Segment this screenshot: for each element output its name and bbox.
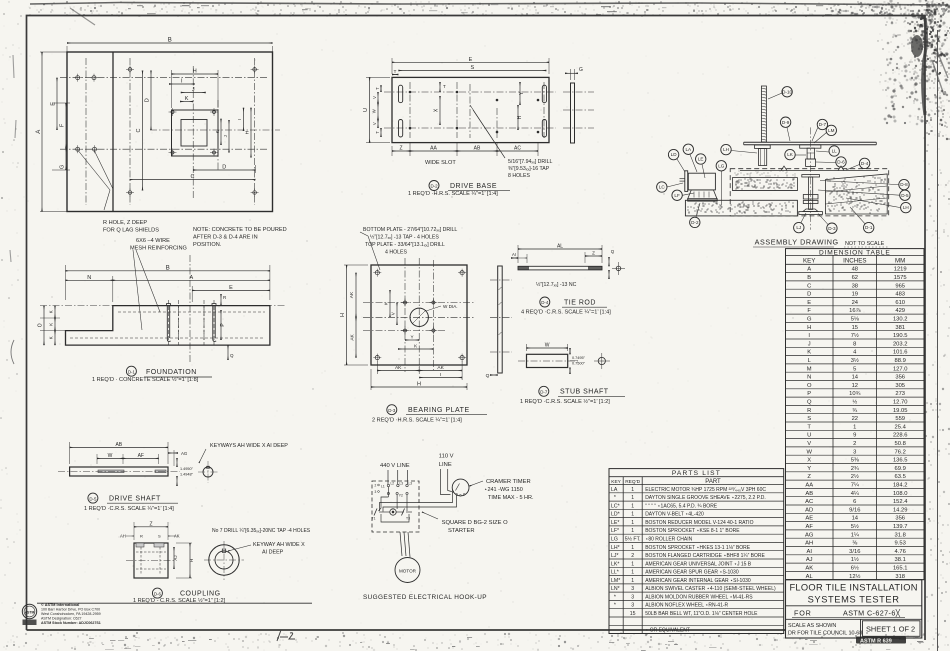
svg-text:*: *	[611, 594, 616, 600]
anchor bolt centerlines	[168, 300, 170, 345]
foundation plan inner edge line	[112, 52, 114, 212]
dimension E section	[192, 289, 270, 291]
svg-text:L1: L1	[381, 485, 385, 489]
svg-text:AL: AL	[557, 244, 563, 250]
svg-text:© ASTM International: © ASTM International	[41, 603, 79, 607]
svg-text:LE: LE	[698, 157, 704, 162]
motor mount wedge	[688, 190, 717, 199]
svg-text:LK*: LK*	[611, 561, 619, 567]
dims Y K interior bottom	[405, 339, 419, 341]
svg-text:1: 1	[631, 487, 634, 493]
wire L2	[397, 470, 399, 484]
wire L3	[407, 470, 409, 484]
svg-text:H: H	[807, 325, 811, 331]
lower shaft column	[809, 177, 813, 209]
svg-text:AK: AK	[395, 365, 402, 371]
svg-text:DRIVE SHAFT: DRIVE SHAFT	[109, 496, 161, 503]
svg-text:1.4948”: 1.4948”	[180, 473, 194, 477]
svg-text:B: B	[168, 38, 172, 44]
svg-text:3: 3	[631, 603, 634, 609]
dimension A section	[113, 279, 270, 281]
svg-text:AK: AK	[349, 291, 355, 298]
svg-text:LG: LG	[718, 163, 725, 168]
dimension Y interior	[519, 82, 521, 105]
stub shaft end view	[598, 357, 605, 364]
svg-text:19: 19	[852, 292, 858, 298]
svg-text:Y: Y	[411, 335, 414, 340]
svg-text:“ “ “ “ ⋆1AC6: “ “ “ “ ⋆1AC65, 5.4 P.D. ¾ BORE	[645, 503, 718, 509]
svg-text:K: K	[807, 350, 811, 356]
svg-text:203.2: 203.2	[893, 341, 908, 347]
top paper edge line	[30, 3, 948, 6]
svg-text:J: J	[808, 341, 811, 347]
dims K V interior	[389, 290, 391, 317]
svg-text:50LB BAR BELL WT, 11”O.D. 1⅛: 50LB BAR BELL WT, 11”O.D. 1⅛” CENTER HOL…	[645, 611, 758, 617]
svg-text:D-4: D-4	[861, 161, 869, 166]
svg-text:139.7: 139.7	[893, 524, 908, 530]
label D-3 bearing plate	[387, 405, 397, 415]
balloon LG	[716, 161, 726, 171]
dimension H coupling	[176, 542, 192, 544]
label D-2 drive base	[429, 181, 439, 191]
svg-text:H: H	[340, 313, 346, 317]
bottom dims Z AA AB AC	[391, 146, 393, 156]
svg-text:O: O	[38, 323, 44, 327]
svg-text:110 V: 110 V	[439, 453, 454, 459]
svg-text:Z: Z	[592, 251, 595, 256]
electrical hook-up schematic	[363, 453, 534, 601]
svg-text:NOTE: CONCRETE TO BE POURE: NOTE: CONCRETE TO BE POURED	[193, 227, 287, 233]
drive base side view	[571, 83, 575, 143]
svg-text:LJ: LJ	[796, 225, 801, 230]
upper gear plate LM	[800, 145, 821, 148]
dimension B	[66, 46, 68, 56]
svg-text:15: 15	[630, 611, 636, 617]
svg-text:1 REQ’D ·H.R.S. SCALE ¼”=1’: 1 REQ’D ·H.R.S. SCALE ¼”=1’ [1:4]	[408, 191, 498, 197]
svg-text:LINE: LINE	[439, 462, 452, 468]
svg-text:ASSEMBLY DRAWING: ASSEMBLY DRAWING	[755, 238, 839, 247]
edge holes	[128, 68, 132, 72]
svg-text:AMERICAN GEAR SPUR GEAR ⋆S-: AMERICAN GEAR SPUR GEAR ⋆S-1030	[645, 570, 739, 576]
timer feed wire upper	[380, 492, 453, 512]
wire 110-2	[448, 469, 452, 492]
svg-text:AB: AB	[115, 442, 122, 448]
svg-text:AB: AB	[474, 146, 481, 152]
dimension U left	[366, 76, 390, 78]
svg-text:D-7: D-7	[819, 122, 827, 127]
svg-text:G: G	[60, 165, 66, 169]
svg-text:TIME MAX - 5 HR.: TIME MAX - 5 HR.	[488, 495, 534, 501]
drive base plan D-2	[363, 57, 594, 197]
leader to lag shield note	[94, 150, 113, 189]
astm block separator line	[37, 602, 312, 604]
svg-text:0.7500”: 0.7500”	[572, 362, 586, 366]
dimension table	[786, 249, 925, 580]
svg-text:LH: LH	[723, 147, 729, 152]
svg-text:184.2: 184.2	[893, 483, 908, 489]
svg-text:SYSTEMS TESTER: SYSTEMS TESTER	[808, 595, 900, 605]
svg-text:1219: 1219	[894, 267, 907, 273]
svg-text:D-2: D-2	[691, 220, 699, 225]
svg-text:SUGGESTED ELECTRICAL HOOK-: SUGGESTED ELECTRICAL HOOK-UP	[363, 594, 487, 601]
svg-text:ALBION MOLDON RUBBER WHEEL ⋆M: ALBION MOLDON RUBBER WHEEL ⋆M-41-RS	[645, 594, 753, 600]
svg-text:AK: AK	[805, 566, 813, 572]
dimension G	[65, 148, 67, 170]
svg-text:AH: AH	[120, 534, 126, 539]
svg-text:PARTS LIST: PARTS LIST	[672, 470, 721, 477]
dimension table rows	[786, 272, 925, 274]
balloon D-2 assembly	[690, 217, 700, 227]
svg-text:15: 15	[852, 325, 858, 331]
wire mesh dashed line	[70, 337, 265, 339]
svg-text:3: 3	[853, 449, 856, 455]
svg-text:D: D	[222, 165, 226, 171]
left margin brace	[11, 340, 14, 364]
svg-text:ASTM Designation: C627: ASTM Designation: C627	[41, 616, 82, 620]
contact T3	[402, 509, 405, 516]
svg-text:14: 14	[852, 516, 859, 522]
outer right border line	[937, 30, 939, 651]
svg-text:SQUARE D BG-2 SIZE O: SQUARE D BG-2 SIZE O	[442, 520, 509, 526]
base flange bottom	[803, 209, 818, 212]
svg-text:E: E	[807, 300, 811, 306]
svg-text:A: A	[36, 130, 42, 134]
svg-text:B: B	[166, 265, 170, 271]
drive base tapped holes	[409, 91, 412, 94]
svg-text:K: K	[215, 130, 220, 133]
universal joint LK	[807, 148, 814, 159]
svg-text:LG: LG	[611, 537, 618, 543]
timer terminals	[452, 491, 454, 493]
svg-text:6X6 –4 WIRE: 6X6 –4 WIRE	[136, 238, 170, 244]
svg-text:AF: AF	[138, 453, 144, 459]
svg-text:1575: 1575	[894, 275, 907, 281]
svg-text:L2: L2	[391, 482, 395, 486]
dimension O left	[43, 306, 45, 346]
svg-text:14.29: 14.29	[893, 507, 908, 513]
svg-text:I: I	[440, 372, 441, 378]
svg-text:16⅞: 16⅞	[849, 308, 860, 314]
dimension AK lower left	[355, 317, 357, 357]
drive shaft keyways	[98, 470, 124, 473]
svg-text:West Conshohocken, PA 19428-29: West Conshohocken, PA 19428-2959	[41, 612, 101, 616]
svg-text:610: 610	[895, 300, 905, 306]
svg-text:1 REQ’D ·C.R.S. SCALE ¼”=1’: 1 REQ’D ·C.R.S. SCALE ¼”=1’ [1:4]	[84, 506, 174, 512]
svg-text:T: T	[394, 69, 397, 74]
svg-text:FOR: FOR	[794, 609, 812, 618]
bearing plate centerlines	[363, 316, 475, 318]
svg-text:DAYTON V-BELT ⋆4L-420: DAYTON V-BELT ⋆4L-420	[645, 512, 704, 518]
concrete upper-left band	[733, 178, 798, 191]
svg-text:TOP PLATE - 33/64”[13.1ₓₓ] DR: TOP PLATE - 33/64”[13.1ₓₓ] DRILL	[365, 242, 445, 248]
svg-text:H: H	[517, 115, 523, 119]
dimension H bottom	[370, 369, 372, 390]
svg-text:LK: LK	[787, 152, 794, 157]
svg-text:K: K	[49, 323, 54, 326]
dimension I bottom	[419, 377, 462, 379]
contact T1	[374, 509, 377, 516]
dimension R small	[220, 294, 222, 306]
svg-text:AMERICAN GEAR UNIVERSAL JOIN: AMERICAN GEAR UNIVERSAL JOINT ⋆J 15 B	[645, 561, 752, 567]
balloon D-1 assembly	[864, 222, 874, 232]
balloon LH right	[901, 202, 911, 212]
svg-text:⋆241 -WG 1150: ⋆241 -WG 1150	[484, 487, 523, 493]
svg-text:LD: LD	[671, 152, 678, 157]
aux terminals 2 3	[378, 484, 380, 486]
dimension Q below	[227, 345, 229, 360]
svg-text:38: 38	[852, 283, 858, 289]
inner pocket square	[181, 120, 207, 147]
svg-text:10¾: 10¾	[849, 391, 860, 397]
svg-text:356: 356	[895, 375, 905, 381]
svg-text:7¼: 7¼	[851, 483, 859, 489]
balloon LA	[683, 144, 693, 154]
svg-text:38.1: 38.1	[895, 557, 906, 563]
svg-text:165.1: 165.1	[893, 566, 908, 572]
svg-text:9/16: 9/16	[849, 507, 860, 513]
svg-text:8 HOLES: 8 HOLES	[508, 173, 530, 179]
svg-text:ASTM: ASTM	[25, 611, 35, 615]
svg-text:BOSTON SPROCKET ⋆HKES 13-1: BOSTON SPROCKET ⋆HKES 13-1 1⅛” BORE	[645, 545, 751, 551]
svg-text:V: V	[807, 441, 811, 447]
svg-text:100 Barr Harbor Drive, PO Box: 100 Barr Harbor Drive, PO Box C700	[41, 608, 100, 612]
svg-text:6: 6	[853, 499, 856, 505]
svg-text:LL*: LL*	[611, 570, 619, 576]
balloon D-3 assembly	[827, 223, 837, 233]
dimension W stub	[526, 344, 528, 351]
svg-text:O: O	[807, 383, 812, 389]
svg-text:8: 8	[853, 341, 856, 347]
svg-text:ALBION NOFLEX WHEEL ⋆RN-41-R: ALBION NOFLEX WHEEL ⋆RN-41-R	[645, 603, 728, 609]
svg-text:1: 1	[631, 570, 634, 576]
svg-text:0.7495”: 0.7495”	[572, 356, 586, 360]
svg-text:Y: Y	[807, 466, 811, 472]
svg-text:Y2: Y2	[399, 494, 403, 498]
drive base centerlines	[384, 91, 556, 93]
leader drill note	[470, 105, 505, 158]
svg-text:AD: AD	[805, 507, 813, 513]
balloon LD	[668, 149, 678, 159]
svg-text:H: H	[193, 69, 197, 75]
svg-text:228.6: 228.6	[893, 433, 908, 439]
svg-text:H: H	[417, 382, 421, 388]
svg-text:1¼: 1¼	[851, 532, 859, 538]
drive shaft D-5	[58, 442, 288, 512]
plate note leader	[368, 236, 380, 270]
keyways note leader	[199, 449, 206, 463]
sprocket column LH under bar	[755, 145, 771, 149]
reducer block center	[806, 159, 816, 166]
svg-text:D-6: D-6	[837, 160, 845, 165]
coupling end view	[209, 545, 239, 575]
svg-text:5/16”[7.94ₓₓ] DRILL: 5/16”[7.94ₓₓ] DRILL	[508, 159, 552, 165]
svg-text:NOT TO SCALE: NOT TO SCALE	[845, 241, 885, 247]
wire L1 drop	[387, 487, 389, 497]
svg-text:V: V	[372, 122, 377, 125]
svg-text:D-5: D-5	[901, 193, 909, 198]
svg-text:LN*: LN*	[611, 586, 620, 592]
tie rod threaded ends	[518, 266, 529, 270]
handwritten mark bottom center	[277, 630, 295, 641]
dimension Q side view	[490, 374, 498, 376]
svg-text:⋆80 ROLLER CHAIN: ⋆80 ROLLER CHAIN	[645, 537, 692, 543]
svg-text:C: C	[191, 174, 195, 180]
svg-text:*: *	[611, 495, 616, 501]
svg-text:5: 5	[853, 366, 856, 372]
svg-text:4 HOLES: 4 HOLES	[385, 250, 407, 256]
balloon LM	[826, 125, 836, 135]
svg-text:Z: Z	[149, 521, 152, 527]
svg-text:LA: LA	[685, 147, 692, 152]
svg-text:429: 429	[895, 308, 905, 314]
svg-text:STUB SHAFT: STUB SHAFT	[560, 389, 609, 396]
svg-text:W: W	[806, 449, 812, 455]
dimension W shaft	[97, 457, 123, 459]
starter leader	[422, 512, 438, 519]
dimension D interior	[150, 71, 152, 131]
svg-text:R HOLE, Z DEEP: R HOLE, Z DEEP	[103, 220, 147, 226]
balloon D-4 assembly	[859, 158, 869, 168]
svg-text:R: R	[140, 534, 143, 539]
wire 110-1	[441, 469, 451, 495]
svg-text:½”[12.7ₓₓ] -13 TAP - 4 HOLES: ½”[12.7ₓₓ] -13 TAP - 4 HOLES	[370, 234, 439, 241]
svg-text:AFTER D-3 & D-4 ARE IN: AFTER D-3 & D-4 ARE IN	[193, 235, 258, 241]
starter terminals row2	[387, 492, 389, 494]
svg-text:WIDE SLOT: WIDE SLOT	[425, 160, 456, 166]
center bore W dia	[410, 308, 428, 326]
svg-text:LC*: LC*	[611, 503, 620, 509]
section centerline	[40, 305, 285, 307]
svg-text:DR FOR TILE COUNCIL 10-68: DR FOR TILE COUNCIL 10-68	[788, 631, 862, 637]
bearing plate corner holes in plan	[171, 111, 174, 114]
stub shaft D-7	[518, 343, 625, 405]
dimension A	[40, 51, 70, 53]
lag shield holes	[76, 76, 80, 80]
svg-text:50.8: 50.8	[895, 441, 906, 447]
overload heater	[390, 509, 396, 515]
svg-text:⅜′′[9.53ₓₓ]-16 TAP: ⅜′′[9.53ₓₓ]-16 TAP	[508, 166, 550, 172]
balloon D-9	[780, 117, 790, 127]
svg-text:J: J	[192, 87, 195, 93]
svg-text:5⅜: 5⅜	[851, 458, 859, 464]
threaded load rod D-10	[761, 86, 766, 142]
svg-text:L3: L3	[400, 482, 404, 486]
svg-text:MESH REINFORCING: MESH REINFORCING	[130, 246, 187, 252]
svg-text:G: G	[807, 317, 812, 323]
svg-text:1: 1	[631, 503, 634, 509]
svg-text:1: 1	[631, 495, 634, 501]
concrete speckle texture	[687, 170, 885, 214]
svg-text:76.2: 76.2	[895, 449, 906, 455]
dimension table column lines	[832, 255, 834, 579]
dimension P right	[220, 310, 222, 340]
dimension D bottom	[193, 169, 255, 171]
leader W dia	[426, 306, 441, 311]
svg-text:63.5: 63.5	[895, 474, 906, 480]
motor M	[395, 558, 420, 583]
svg-text:LH: LH	[903, 205, 909, 210]
svg-text:D-10: D-10	[782, 89, 792, 94]
dimension H left full	[344, 264, 368, 266]
wire L1	[387, 470, 389, 484]
dimensions K left stack	[54, 306, 56, 318]
svg-text:P: P	[807, 391, 811, 397]
dims AK AK bottom	[376, 361, 378, 374]
svg-text:BOTTOM PLATE - 27/64”[10.72ₓₓ]: BOTTOM PLATE - 27/64”[10.72ₓₓ] DRILL	[363, 227, 457, 233]
tie rod anchors at pit top	[740, 170, 878, 172]
bearing plate corner holes	[375, 271, 379, 275]
dimension T drive base top-left	[392, 74, 398, 76]
dimension E	[56, 78, 58, 130]
svg-text:U: U	[807, 433, 811, 439]
svg-text:CRAMER TIMER: CRAMER TIMER	[486, 479, 531, 485]
tie rod D-4	[511, 244, 625, 316]
small dims right of plate	[220, 119, 222, 145]
svg-text:S: S	[158, 534, 161, 539]
balloon D-10	[782, 87, 792, 97]
coupling internal dashed lines	[140, 547, 142, 574]
svg-text:BEARING PLATE: BEARING PLATE	[408, 407, 470, 414]
svg-text:D-6: D-6	[154, 591, 162, 596]
svg-text:ASTM C-627-6╳: ASTM C-627-6╳	[843, 609, 901, 618]
shaft diameter tolerance	[176, 458, 178, 467]
svg-text:Z: Z	[807, 474, 811, 480]
svg-text:STARTER: STARTER	[448, 528, 475, 534]
svg-text:D: D	[807, 292, 811, 298]
svg-text:483: 483	[895, 292, 905, 298]
svg-text:LH*: LH*	[611, 545, 620, 551]
svg-text:2¾: 2¾	[851, 466, 859, 472]
svg-text:108.0: 108.0	[893, 491, 908, 497]
dimension K	[180, 101, 193, 103]
svg-text:2: 2	[853, 441, 856, 447]
dimension J	[181, 92, 206, 94]
svg-text:48: 48	[852, 267, 858, 273]
astm logo seal	[22, 603, 100, 625]
dimension F	[65, 103, 67, 148]
svg-text:K: K	[185, 96, 189, 102]
svg-text:BOSTON SPROCKET ⋆KSE 8-1 1”: BOSTON SPROCKET ⋆KSE 8-1 1” BORE	[645, 528, 740, 534]
svg-text:FLOOR TILE INSTALLATION: FLOOR TILE INSTALLATION	[789, 583, 917, 593]
bearing plate D-3	[340, 227, 512, 424]
svg-text:U: U	[363, 108, 369, 112]
svg-text:Z: Z	[399, 146, 402, 152]
svg-text:B: B	[807, 275, 811, 281]
starter bottom loop wire	[381, 514, 409, 522]
svg-text:2½: 2½	[851, 473, 859, 480]
svg-text:88.9: 88.9	[895, 358, 906, 364]
dimension C interior	[142, 71, 144, 191]
motor base plate	[688, 199, 718, 201]
svg-text:965: 965	[895, 283, 905, 289]
bearing plate side view	[498, 266, 503, 373]
svg-text:T: T	[807, 424, 811, 430]
svg-text:ASTM Stock Number: ADJC0627S1: ASTM Stock Number: ADJC0627S1	[41, 621, 101, 625]
dimension AF shaft	[123, 457, 159, 459]
svg-text:AI: AI	[806, 549, 812, 555]
svg-text:AC: AC	[514, 146, 521, 152]
svg-text:POSITION.: POSITION.	[193, 242, 222, 248]
svg-text:BOSTON FLANGED CARTRIDGE ⋆BHF: BOSTON FLANGED CARTRIDGE ⋆BHF8 1¼” BORE	[645, 553, 765, 559]
svg-text:TIE ROD: TIE ROD	[564, 300, 596, 307]
svg-text:AA: AA	[430, 146, 437, 152]
svg-text:1 REQ’D · CONCRETE SCALE ½”: 1 REQ’D · CONCRETE SCALE ½”=1’ [1:8]	[92, 376, 199, 383]
svg-text:4¼: 4¼	[851, 491, 859, 497]
svg-text:I: I	[237, 119, 242, 120]
svg-text:1: 1	[631, 561, 634, 567]
svg-text:152.4: 152.4	[893, 499, 908, 505]
svg-text:AK: AK	[349, 333, 355, 340]
